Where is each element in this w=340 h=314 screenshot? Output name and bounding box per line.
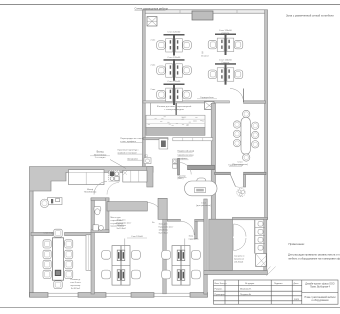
leader (124, 239, 126, 251)
svg-text:Для рассадки примерно указаны: Для рассадки примерно указаны места и ти… (288, 252, 340, 256)
svg-text:Прим. Выборная 4: Прим. Выборная 4 (310, 287, 331, 289)
core block (209, 219, 233, 270)
partition (195, 221, 198, 239)
wall (65, 232, 92, 235)
desk cluster (172, 246, 190, 286)
wall (211, 103, 215, 219)
svg-text:Разраб.: Разраб. (215, 289, 223, 291)
cooler (159, 139, 168, 150)
svg-text:Иванова Е.: Иванова Е. (240, 289, 252, 291)
svg-text:2 мес: 2 мес (151, 65, 156, 67)
wardrobe (69, 170, 105, 185)
door leaf (230, 175, 235, 187)
chair (233, 130, 240, 137)
svg-text:2 мес: 2 мес (151, 89, 156, 91)
svg-text:120х60см: 120х60см (117, 225, 127, 227)
chair (40, 199, 48, 207)
door (53, 234, 65, 246)
chair (65, 250, 73, 258)
top frame line (0, 4, 340, 6)
chair (43, 240, 51, 248)
bottom wall (190, 293, 208, 298)
svg-text:Петрова А.: Петрова А. (240, 293, 252, 296)
door (107, 183, 119, 195)
chair (65, 260, 73, 268)
chair (43, 260, 51, 268)
svg-text:S: S (202, 51, 204, 55)
chair (43, 270, 51, 278)
sink (144, 158, 151, 164)
wc (258, 222, 263, 227)
top wall (143, 10, 267, 13)
svg-text:2 мес: 2 мес (151, 40, 156, 42)
svg-text:шкафчики: шкафчики (178, 157, 189, 160)
bottom wall (131, 293, 154, 298)
svg-text:Шкаф: Шкаф (87, 188, 93, 191)
wall (264, 219, 267, 270)
wall (91, 198, 109, 201)
chair (252, 122, 259, 129)
chair (252, 141, 259, 148)
chair (197, 178, 206, 186)
meeting table (241, 117, 250, 154)
svg-text:стол 8 мест: стол 8 мест (70, 282, 81, 284)
wall (232, 217, 267, 219)
wc (258, 230, 263, 235)
svg-text:8 рабочих мест: 8 рабочих мест (117, 222, 132, 224)
svg-text:S=19.6м2: S=19.6м2 (159, 232, 169, 234)
svg-text:8 рабочих мест: 8 рабочих мест (159, 227, 174, 229)
top wall pier (192, 11, 213, 20)
svg-text:Зона для: Зона для (117, 219, 126, 221)
leader (184, 239, 186, 251)
door (147, 203, 162, 218)
washer (173, 159, 177, 163)
wall (215, 172, 231, 174)
svg-text:300х1500мм: 300х1500мм (94, 154, 107, 156)
svg-text:2 места: 2 места (221, 32, 230, 34)
wall (31, 232, 53, 235)
wall (91, 230, 109, 233)
door (94, 182, 107, 195)
svg-text:Изм. Кол.уч: Изм. Кол.уч (215, 283, 227, 285)
svg-text:мойкой и техникой: мойкой и техникой (118, 151, 138, 154)
chair (65, 240, 73, 248)
svg-text:Подвесной шкаф: Подвесной шкаф (178, 149, 195, 152)
fixtures (109, 170, 120, 181)
wall (107, 202, 147, 211)
svg-text:Проверил: Проверил (215, 294, 226, 296)
svg-text:Кухонный гарнитур с: Кухонный гарнитур с (118, 149, 140, 152)
svg-text:S=18.5м2: S=18.5м2 (71, 288, 81, 290)
svg-text:(С): (С) (145, 155, 149, 158)
svg-text:прачечная: прачечная (234, 259, 244, 261)
wc (258, 246, 263, 251)
svg-text:в пол. профиль: в пол. профиль (120, 140, 137, 143)
glass partition posts (150, 103, 152, 115)
svg-text:мебель и оборудование на плани: мебель и оборудование на планировке офи (289, 257, 340, 261)
tv (55, 270, 61, 276)
svg-text:2 места: 2 места (221, 62, 230, 64)
shaft hatched (256, 254, 276, 276)
door (234, 238, 247, 251)
svg-text:Шкафчики: Шкафчики (127, 157, 138, 160)
wall (177, 159, 179, 175)
svg-text:Дата: Дата (294, 283, 300, 285)
desk cluster (164, 84, 185, 86)
door (234, 224, 247, 237)
chair (252, 131, 259, 138)
wall (91, 198, 94, 294)
sink (93, 225, 103, 231)
left wall (142, 10, 145, 168)
svg-text:16 мест: 16 мест (201, 56, 209, 58)
chair (54, 281, 62, 289)
title block (214, 280, 339, 304)
svg-text:2023: 2023 (294, 299, 300, 301)
svg-text:Зона с размеченной сеткой из м: Зона с размеченной сеткой из мебели (286, 13, 334, 17)
door jamb (243, 175, 245, 187)
svg-text:Санузлы и: Санузлы и (234, 256, 245, 258)
svg-text:1-я секция: 1-я секция (95, 157, 106, 159)
door (236, 186, 244, 189)
wall (195, 219, 204, 221)
svg-text:План с расстановкой мебели: План с расстановкой мебели (304, 296, 336, 299)
svg-text:Схема размещения мебели: Схема размещения мебели (135, 7, 169, 11)
right wall (265, 10, 268, 220)
svg-text:гардероба: гардероба (189, 238, 200, 240)
wall (204, 199, 207, 294)
kitchen counter (146, 115, 205, 135)
chair (43, 250, 51, 258)
window (48, 293, 78, 296)
wc (258, 238, 263, 243)
bottom frame line (0, 307, 340, 309)
svg-text:Подпись: Подпись (274, 283, 284, 285)
chair (54, 229, 62, 237)
svg-text:S=19.8м2: S=19.8м2 (117, 228, 127, 230)
leader (110, 160, 126, 169)
wall pier (158, 198, 167, 219)
svg-text:Стол 120х60: Стол 120х60 (167, 57, 181, 59)
wall (106, 198, 109, 233)
wall (143, 101, 230, 103)
chair (233, 139, 240, 146)
plant (237, 188, 245, 196)
wall (204, 271, 268, 275)
desk cluster (164, 59, 185, 61)
door (180, 163, 192, 175)
svg-text:(13.45м2): (13.45м2) (234, 261, 243, 263)
svg-text:Стол 120х60: Стол 120х60 (167, 32, 181, 34)
desk cluster (112, 246, 130, 286)
svg-text:Выход: Выход (97, 152, 105, 154)
svg-text:Дизайн-проект офиса ООО: Дизайн-проект офиса ООО (305, 282, 334, 285)
wall (163, 219, 166, 293)
door (180, 221, 194, 235)
wall (143, 138, 168, 140)
desk cluster (215, 34, 236, 36)
window (106, 293, 131, 296)
left wall lower (30, 191, 34, 297)
bottom wall (78, 293, 106, 298)
wall (244, 101, 266, 104)
kitchen cabinets (123, 170, 147, 182)
stall wall (254, 220, 256, 254)
svg-text:Перегородка из стекла: Перегородка из стекла (120, 138, 144, 140)
corner wall mass (30, 167, 154, 297)
wall pillar (147, 167, 153, 188)
chair (65, 270, 73, 278)
shaft (147, 17, 157, 27)
desk cluster (164, 34, 185, 36)
svg-text:Стол 120х60: Стол 120х60 (167, 81, 181, 83)
bottom wall (30, 293, 49, 298)
svg-text:Жалюзи для окон в переговорной: Жалюзи для окон в переговорной (157, 105, 192, 108)
svg-text:Зона для: Зона для (159, 224, 168, 226)
cabinet (86, 235, 91, 270)
svg-text:№ докум.: № докум. (245, 282, 255, 285)
wall (188, 165, 215, 170)
svg-text:Примечание:: Примечание: (289, 242, 306, 246)
reception desk (185, 181, 218, 196)
wall (204, 275, 207, 295)
svg-text:с электроприводом: с электроприводом (164, 109, 184, 111)
wall (244, 172, 266, 174)
conference table (52, 238, 63, 280)
svg-text:(МФУ): (МФУ) (178, 177, 184, 180)
desk cluster (215, 63, 236, 64)
svg-text:и оборудования: и оборудования (312, 300, 330, 302)
svg-text:750х3500мм: 750х3500мм (84, 191, 97, 193)
shaft (205, 102, 215, 110)
svg-text:120х60см: 120х60см (159, 229, 169, 231)
chair (243, 110, 250, 117)
small desk (48, 198, 63, 205)
svg-text:(для ресепшн): (для ресепшн) (196, 205, 211, 207)
door (230, 89, 244, 103)
window (154, 293, 190, 296)
cabinet row (173, 138, 213, 141)
svg-text:Рекоменд.: Рекоменд. (70, 279, 80, 281)
wc fixture (94, 206, 101, 214)
wall (167, 219, 180, 221)
svg-text:переговор.: переговор. (70, 285, 81, 287)
chair (233, 121, 240, 128)
chair (243, 154, 250, 161)
